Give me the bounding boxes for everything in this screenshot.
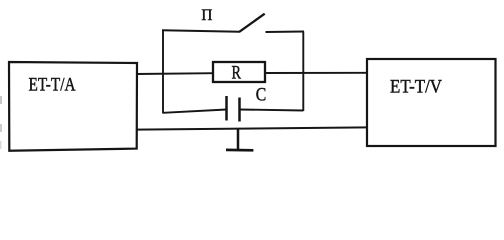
wire upper: R to ET-T/V [264, 72, 368, 74]
svg-text:C: C [256, 84, 266, 105]
capacitor C left plate [225, 96, 228, 121]
resistor R [213, 62, 265, 82]
svg-text:R: R [232, 62, 242, 83]
block ET-T/V [367, 59, 496, 146]
scan smudge left edge 1 [0, 96, 2, 104]
svg-text:ET-T/A: ET-T/A [29, 74, 76, 95]
block ET-T/A [9, 62, 137, 151]
wire upper: ET-T/A to R [136, 72, 214, 75]
capacitor C right plate [238, 98, 241, 122]
switch П blade [240, 14, 265, 32]
wire capacitor right lead [240, 110, 304, 111]
wire left rail [162, 30, 164, 113]
switch П right lead [266, 31, 305, 34]
svg-text:П: П [201, 7, 212, 24]
scan smudge left edge 2 [0, 124, 2, 132]
switch П left lead [162, 30, 240, 31]
wire right rail [302, 32, 304, 112]
wire lower: ET-T/A to ET-T/V [136, 127, 368, 129]
ground bar [226, 149, 253, 152]
svg-text:ET-T/V: ET-T/V [390, 77, 442, 98]
scan smudge left edge 3 [0, 141, 2, 149]
ground stub [237, 129, 240, 150]
wire capacitor left lead [163, 110, 227, 113]
